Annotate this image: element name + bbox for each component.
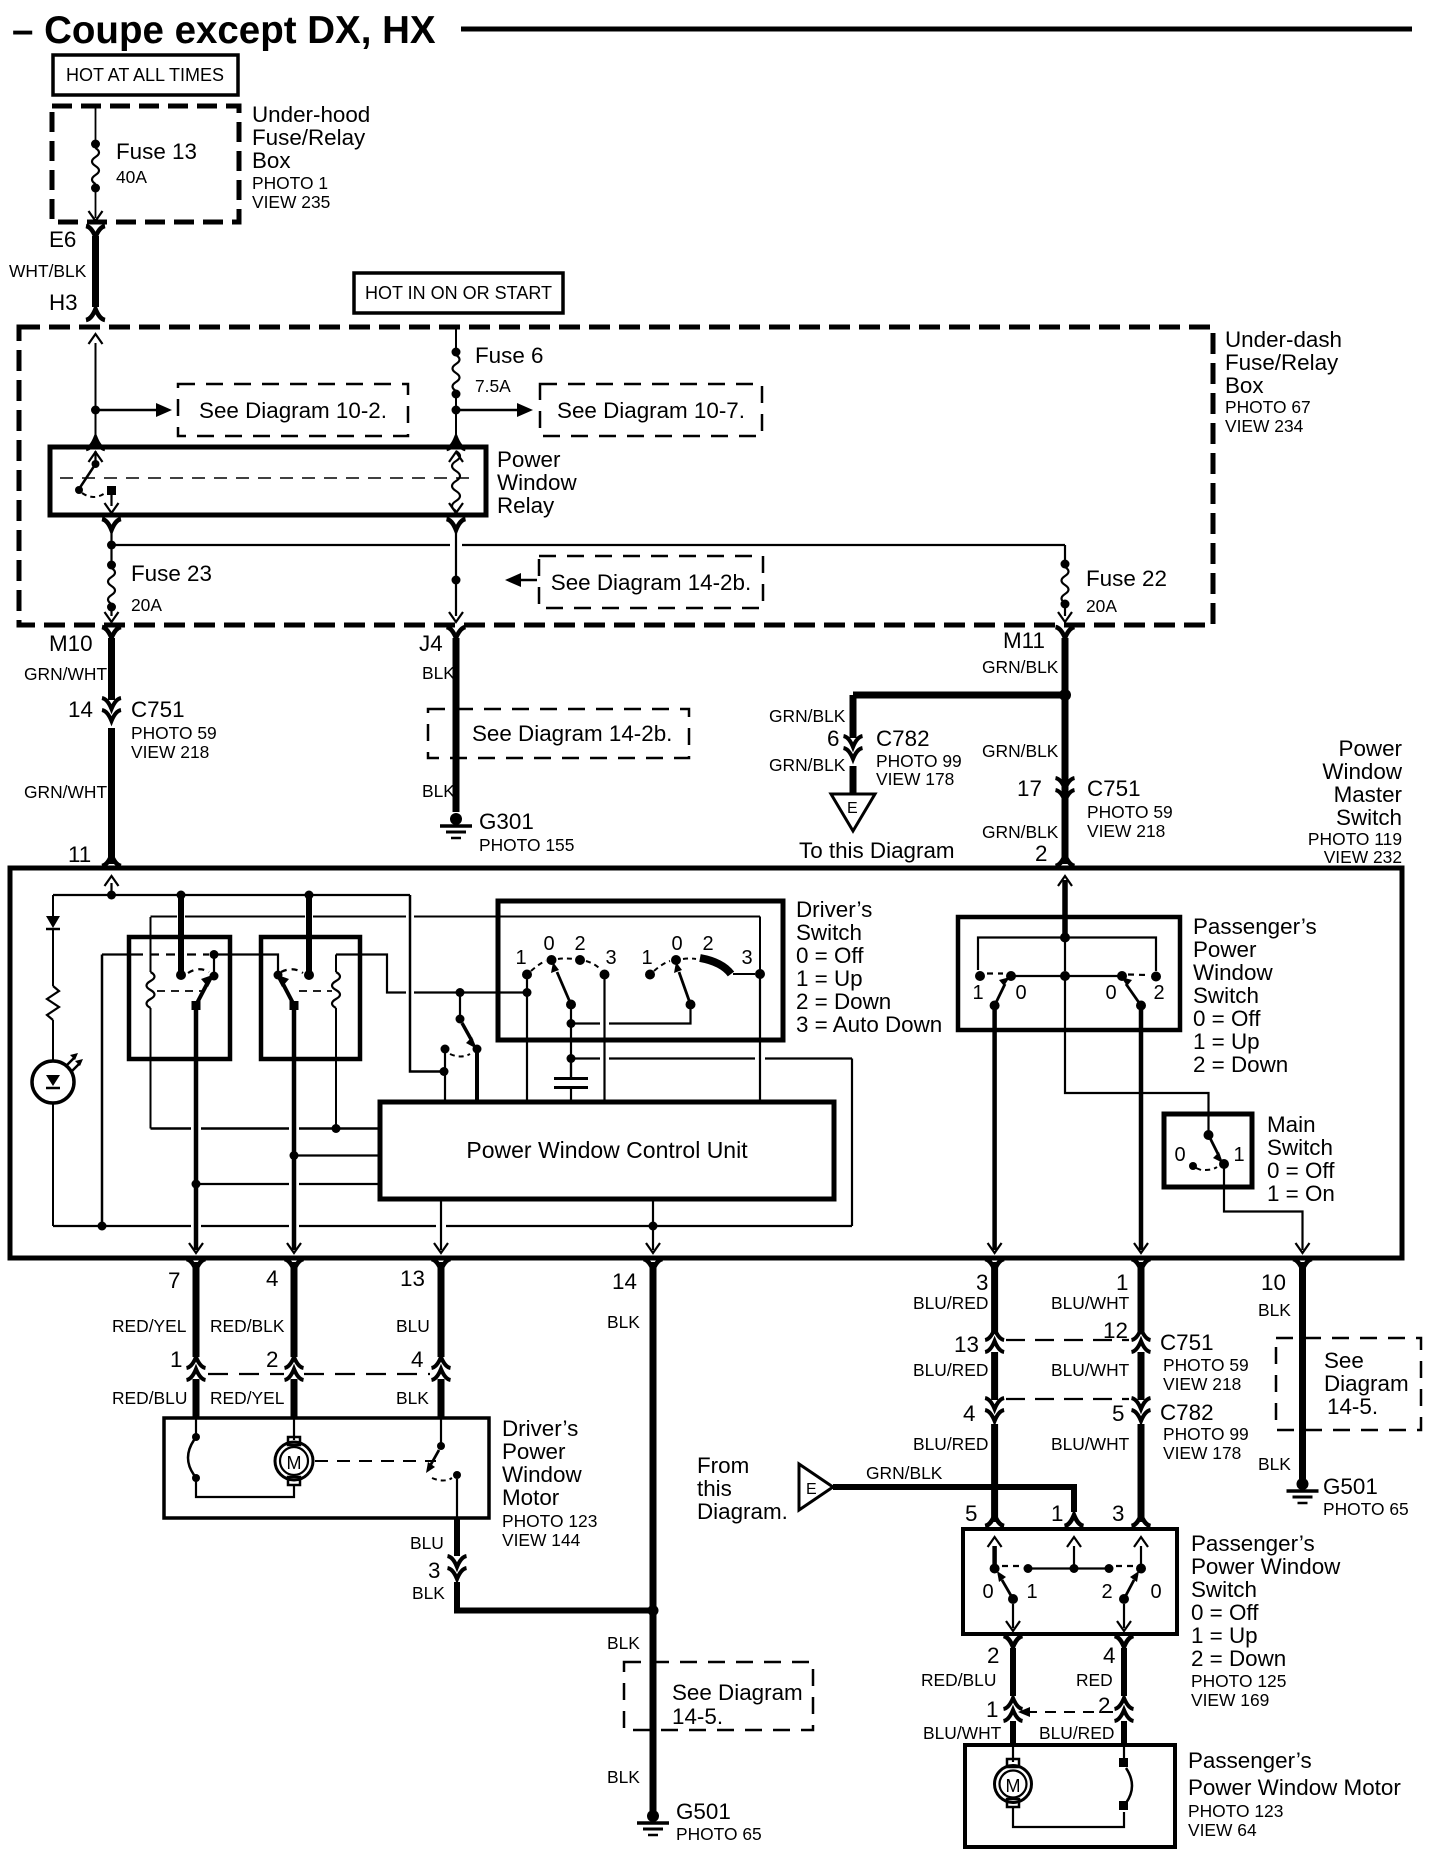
svg-text:BLU: BLU [410,1533,444,1553]
wire pin7 arrow at box edge [189,1243,203,1253]
wire BLK J4 down [453,638,460,812]
svg-text:Switch: Switch [1267,1135,1333,1160]
wire H3 into box [89,334,103,344]
svg-text:PHOTO 65: PHOTO 65 [1323,1499,1409,1519]
svg-text:Switch: Switch [796,920,862,945]
svg-text:BLU: BLU [396,1316,430,1336]
main switch box [1164,1114,1252,1187]
svg-text:1 = Up: 1 = Up [1193,1029,1260,1054]
svg-text:4: 4 [411,1347,423,1372]
wire BLU below motor [454,1518,460,1556]
svg-text:1 = Up: 1 = Up [1191,1623,1258,1648]
wire GRN/BLK to E [850,766,857,794]
ground G501 (left) [637,1810,669,1835]
relay contact [86,438,105,449]
wire pin 1 (master) [1139,1010,1144,1250]
connector 2 (rear motor) [1115,1698,1134,1721]
connector C782 pin 4 [985,1398,1004,1421]
wire rotary A pivot down [570,1009,572,1077]
svg-text:Main: Main [1267,1112,1316,1137]
svg-text:See Diagram 10-7.: See Diagram 10-7. [557,398,745,423]
svg-text:17: 17 [1017,776,1042,801]
power window control unit box [380,1102,834,1199]
wire BLK to pin14 wire [457,1582,650,1611]
svg-text:40A: 40A [116,167,147,187]
svg-text:4: 4 [1103,1643,1115,1668]
svg-text:Passenger’s: Passenger’s [1193,914,1317,939]
connector 2 below rear switch [1004,1636,1023,1647]
HOT AT ALL TIMES box [53,55,238,95]
svg-text:Motor: Motor [502,1485,560,1510]
svg-text:E: E [847,800,858,817]
See Diagram 14-2b box 2 [428,709,689,758]
svg-text:Fuse 22: Fuse 22 [1086,566,1167,591]
svg-text:3: 3 [1112,1501,1124,1526]
svg-text:Box: Box [252,148,291,173]
wire rotary B pivot link [609,1009,691,1024]
rear switch arm DOWN [1119,1594,1129,1604]
capacitor C1 [570,1062,572,1077]
connector below relay right / J4 wire [447,519,466,530]
arrow from See Diagram 14-2b [520,579,537,582]
connector 1 (driver motor) [187,1357,206,1380]
fuse 23 20A [107,561,116,570]
svg-text:VIEW 178: VIEW 178 [876,769,954,789]
svg-text:Fuse 23: Fuse 23 [131,561,212,586]
wire ground bus y1226 [53,1225,191,1227]
rear motor M [1012,1745,1014,1762]
svg-text:0: 0 [1105,982,1116,1004]
title rule [461,27,1412,32]
svg-text:See: See [1324,1348,1364,1373]
svg-text:2: 2 [1098,1693,1110,1718]
relay UP contact arc [188,969,209,973]
relay UP coil [150,917,152,972]
relay DOWN arm [282,982,294,1005]
wire bus to fuse 22 [112,544,451,546]
svg-text:RED/YEL: RED/YEL [112,1316,187,1336]
svg-text:VIEW 178: VIEW 178 [1163,1443,1241,1463]
wire RED/YEL pin7 [193,1262,200,1357]
wire GRN/BLK from E [833,1487,1074,1512]
svg-text:2 = Down: 2 = Down [1193,1052,1288,1077]
svg-text:See Diagram: See Diagram [672,1680,803,1705]
driver's power window motor box [164,1418,489,1518]
wire pin 3 (master) [992,1010,997,1250]
svg-text:1 = Up: 1 = Up [796,966,863,991]
svg-text:13: 13 [954,1332,979,1357]
under-dash fuse/relay box (dashed) [19,327,1213,625]
driver rotary B contacts [645,970,655,980]
rear switch entries [988,1537,1002,1547]
node E (to this diagram) [831,794,875,831]
svg-text:2 = Down: 2 = Down [796,989,891,1014]
svg-text:Power: Power [497,447,561,472]
svg-text:14-5.: 14-5. [672,1704,723,1729]
svg-text:7: 7 [168,1268,180,1293]
svg-text:0: 0 [1174,1144,1185,1166]
svg-text:PHOTO 123: PHOTO 123 [1188,1801,1283,1821]
connector pin 14 at master bottom [644,1259,663,1270]
dashed link C782 [1006,1398,1129,1400]
driver's switch box [498,901,783,1040]
relay UP stationary contact [210,972,219,981]
wire pin2 feed entry [1062,880,1068,934]
relay coil [447,438,466,449]
node junction M11 branch [1059,689,1071,701]
svg-text:C751: C751 [1087,776,1141,801]
wire GRN/WHT to pin 11 [108,728,115,864]
svg-text:Window: Window [497,470,577,495]
connector C751 pin 12 [1132,1329,1151,1352]
svg-text:1: 1 [1116,1270,1128,1295]
wire feed branch x410 [410,895,444,1072]
wire dashed ground link into relay UP [134,953,175,955]
svg-text:M: M [287,1453,302,1473]
svg-text:BLU/RED: BLU/RED [913,1360,988,1380]
wire BLU/WHT pin1 [1132,1259,1151,1270]
connector pin 2 into master switch [1056,855,1075,866]
svg-text:PHOTO 59: PHOTO 59 [1163,1355,1249,1375]
See Diagram 14-2b box [539,556,763,608]
auto-down relay contact [459,993,461,1016]
svg-text:1: 1 [170,1347,182,1372]
svg-text:PHOTO 155: PHOTO 155 [479,835,574,855]
svg-text:Passenger’s: Passenger’s [1188,1748,1312,1773]
connector C751 pin 17 [1056,778,1075,801]
connector pin 11 into master switch [102,855,121,866]
svg-text:PHOTO 123: PHOTO 123 [502,1511,597,1531]
relay DOWN contact arc [281,969,303,973]
See Diagram 14-5 box (right) [1276,1338,1421,1430]
svg-text:BLU/RED: BLU/RED [913,1293,988,1313]
wire rotary A contact 1 down [526,979,528,1102]
node: bus junction [107,541,116,550]
svg-text:BLK: BLK [1258,1300,1291,1320]
svg-text:Switch: Switch [1191,1577,1257,1602]
svg-text:BLK: BLK [422,781,455,801]
connector M10 [102,627,121,638]
arrow to See Diagram 10-2 [96,409,159,412]
svg-text:2: 2 [574,933,585,955]
svg-text:HOT AT ALL TIMES: HOT AT ALL TIMES [66,65,224,85]
svg-text:M11: M11 [1003,628,1045,653]
svg-text:G501: G501 [676,1799,731,1824]
svg-text:1: 1 [641,947,652,969]
svg-text:HOT IN ON OR START: HOT IN ON OR START [365,283,552,303]
svg-text:C751: C751 [1160,1330,1214,1355]
svg-text:Power Window Control Unit: Power Window Control Unit [466,1137,748,1163]
svg-text:2 = Down: 2 = Down [1191,1646,1286,1671]
svg-text:H3: H3 [49,290,78,315]
connector J4 [447,627,466,638]
passenger switch box (on master) [958,917,1180,1030]
svg-text:11: 11 [68,842,91,867]
dashed link with arrow [1026,1711,1116,1713]
rear switch arm UP [1008,1594,1018,1604]
wire branch to C782 [853,692,1065,699]
svg-text:VIEW 169: VIEW 169 [1191,1690,1269,1710]
svg-text:VIEW 218: VIEW 218 [1163,1374,1241,1394]
svg-text:To this Diagram: To this Diagram [799,838,955,863]
svg-text:PHOTO 125: PHOTO 125 [1191,1671,1286,1691]
ground G301 [440,813,472,838]
svg-text:0: 0 [982,1581,993,1603]
wire passenger center drop [1064,938,1066,972]
svg-text:0: 0 [671,933,682,955]
svg-text:3 = Auto Down: 3 = Auto Down [796,1012,942,1037]
driver motor breaker [195,1418,197,1434]
power window master switch box [10,868,1402,1258]
connector 3 into rear switch [1132,1515,1151,1526]
svg-text:PHOTO 1: PHOTO 1 [252,173,328,193]
svg-text:BLU/RED: BLU/RED [913,1434,988,1454]
main switch contact [1204,1130,1214,1140]
relay DOWN linkage [299,990,332,992]
wire BLU pin13 [438,1262,445,1357]
svg-text:BLK: BLK [396,1388,429,1408]
svg-text:Fuse 6: Fuse 6 [475,343,543,368]
svg-text:0 = Off: 0 = Off [1193,1006,1261,1031]
wire BLU/WHT [1138,1424,1145,1522]
svg-text:BLU/RED: BLU/RED [1039,1723,1114,1743]
node junction BLK [648,1605,659,1616]
wire CU pin 13 [440,1199,442,1250]
See Diagram 10-7 box [540,384,762,436]
svg-text:Window: Window [1193,960,1273,985]
svg-text:GRN/BLK: GRN/BLK [982,822,1059,842]
svg-text:See Diagram 14-2b.: See Diagram 14-2b. [551,570,751,595]
connector 3 (driver motor ground) [448,1556,467,1579]
connector H3 [86,309,105,320]
svg-text:Under-dash: Under-dash [1225,327,1342,352]
passenger sub-switch UP [975,971,985,981]
relay DOWN box (driver window) [261,937,360,1059]
svg-text:2: 2 [1153,982,1164,1004]
svg-text:PHOTO 99: PHOTO 99 [876,751,962,771]
connector 4 below rear switch [1115,1636,1134,1647]
svg-text:G301: G301 [479,809,534,834]
svg-text:WHT/BLK: WHT/BLK [9,261,87,281]
svg-text:4: 4 [266,1266,278,1291]
wire RED/BLK pin4 [291,1262,298,1357]
diode D1 [52,895,54,916]
svg-text:Under-hood: Under-hood [252,102,370,127]
svg-text:RED/YEL: RED/YEL [210,1388,285,1408]
svg-text:5: 5 [1112,1401,1124,1426]
svg-text:VIEW 218: VIEW 218 [131,742,209,762]
svg-text:BLU/WHT: BLU/WHT [923,1723,1002,1743]
relay internal dashed line [60,477,476,479]
wire CU pin4 link y1155 [294,1154,380,1156]
connector below relay left [102,519,121,530]
svg-text:BLK: BLK [422,663,455,683]
connector 1 (rear motor) [1004,1698,1023,1721]
svg-text:2: 2 [266,1347,278,1372]
svg-text:0: 0 [1150,1581,1161,1603]
wire RED/BLU to motor [193,1379,200,1418]
wire relay DOWN output (pin 4) [292,1010,297,1250]
svg-text:20A: 20A [131,595,162,615]
wire BLU/RED to rear motor [1121,1721,1127,1745]
wire WHT/BLK E6 to H3 [92,236,99,307]
svg-text:RED/BLU: RED/BLU [112,1388,187,1408]
ground G501 (right) [1287,1478,1319,1503]
wire BLU/RED [991,1424,998,1522]
svg-text:GRN/BLK: GRN/BLK [769,755,846,775]
svg-text:Switch: Switch [1193,983,1259,1008]
wire RED/YEL to motor [291,1379,298,1418]
svg-text:From: From [697,1453,749,1478]
fuse 13 40A [95,108,97,140]
driver rotary B wiper (auto-down position) [700,958,731,974]
wire pin 10 (master) [1224,1168,1303,1250]
svg-text:BLK: BLK [607,1312,640,1332]
under-hood fuse/relay box (dashed) [52,106,239,222]
connector 2 (driver motor) [285,1357,304,1380]
relay UP arm [196,982,208,1005]
wire ground bus x102 [101,955,104,1227]
svg-text:E6: E6 [49,227,76,252]
connector pin 4 at master bottom [285,1259,304,1270]
svg-text:Driver’s: Driver’s [502,1416,578,1441]
svg-text:C782: C782 [876,726,930,751]
svg-text:0 = Off: 0 = Off [1191,1600,1259,1625]
wire passenger contact bus [1011,975,1122,977]
svg-text:Fuse 13: Fuse 13 [116,139,197,164]
svg-text:GRN/BLK: GRN/BLK [982,741,1059,761]
svg-text:1: 1 [1026,1581,1037,1603]
wire to main switch [1065,980,1209,1132]
svg-text:PHOTO 59: PHOTO 59 [131,723,217,743]
connector C782 pin 6 [844,736,863,759]
fuse 22 20A [1061,560,1070,569]
rear switch contact bus [990,1564,1000,1574]
svg-text:BLK: BLK [607,1633,640,1653]
connector M11 [1056,627,1075,638]
svg-text:Power: Power [1339,736,1403,761]
svg-text:14: 14 [68,697,93,722]
svg-text:7.5A: 7.5A [475,376,511,396]
svg-text:4: 4 [963,1401,975,1426]
svg-text:RED/BLU: RED/BLU [921,1670,996,1690]
svg-text:Power: Power [502,1439,566,1464]
relay UP box (driver window) [129,937,230,1059]
wire pivot ground bus y1058 [571,1057,600,1059]
svg-text:3: 3 [976,1270,988,1295]
svg-text:Window: Window [502,1462,582,1487]
svg-text:13: 13 [400,1266,425,1291]
wire coil DOWN top link [336,955,406,993]
svg-text:Diagram.: Diagram. [697,1499,788,1524]
svg-text:Power: Power [1193,937,1257,962]
svg-text:2: 2 [1035,841,1047,866]
svg-text:BLK: BLK [1258,1454,1291,1474]
svg-text:6: 6 [827,726,839,751]
svg-text:RED: RED [1076,1670,1113,1690]
relay UP linkage [157,990,203,992]
passenger sub-switch DOWN [1151,972,1161,982]
connector E6 [86,226,105,237]
wire GRN/WHT M10 down [108,638,115,700]
svg-text:C782: C782 [1160,1400,1214,1425]
svg-text:M: M [1006,1776,1021,1796]
rear motor breaker [1123,1745,1125,1760]
wire CU pin 14 [652,1199,654,1250]
svg-text:Fuse/Relay: Fuse/Relay [252,125,366,150]
svg-text:J4: J4 [419,631,443,656]
svg-text:VIEW 64: VIEW 64 [1188,1820,1257,1840]
svg-text:VIEW 218: VIEW 218 [1087,821,1165,841]
connector 5 into rear switch [985,1515,1004,1526]
connector C751 pin 13 [985,1329,1004,1352]
svg-text:BLU/WHT: BLU/WHT [1051,1360,1130,1380]
svg-text:this: this [697,1476,732,1501]
wire passenger top bus [978,938,1156,972]
wire GRN/BLK M11 down [1062,638,1069,864]
connector pin 13 at master bottom [432,1259,451,1270]
HOT IN ON OR START box [354,273,563,313]
svg-text:0 = Off: 0 = Off [1267,1158,1335,1183]
svg-text:Driver’s: Driver’s [796,897,872,922]
wire stationary link to relay DOWN [214,955,278,972]
wire rotary A contact 3 down [603,979,605,1102]
svg-text:Relay: Relay [497,493,555,518]
svg-text:2: 2 [987,1643,999,1668]
arrow to See Diagram 10-7 [456,409,519,412]
wire pin 11 entry [105,876,119,886]
power window relay box [50,447,486,515]
svg-text:Power Window Motor: Power Window Motor [1188,1775,1401,1800]
relay DOWN coil [335,955,337,973]
svg-text:14: 14 [612,1269,637,1294]
svg-text:See Diagram 14-2b.: See Diagram 14-2b. [472,721,672,746]
svg-text:10: 10 [1261,1270,1286,1295]
svg-text:E: E [806,1481,817,1498]
svg-text:Master: Master [1334,782,1403,807]
svg-text:VIEW 235: VIEW 235 [252,192,330,212]
svg-text:Fuse/Relay: Fuse/Relay [1225,350,1339,375]
svg-text:VIEW 232: VIEW 232 [1324,847,1402,867]
svg-text:3: 3 [428,1558,440,1583]
svg-text:GRN/WHT: GRN/WHT [24,664,107,684]
connector C782 pin 5 [1132,1398,1151,1421]
See Diagram 14-5 box (left) [624,1662,813,1730]
wire feed to relay DOWN contact [306,895,312,973]
wire BLU/RED [991,1352,998,1400]
wire CU coil return y1128 [151,1127,192,1130]
connector C751 pin 14 [102,698,121,721]
svg-text:VIEW 144: VIEW 144 [502,1530,581,1550]
svg-text:Passenger’s: Passenger’s [1191,1531,1315,1556]
driver motor linkage dashed [315,1460,436,1462]
wire RED/BLU [1010,1648,1016,1696]
svg-text:0: 0 [543,933,554,955]
svg-text:PHOTO 65: PHOTO 65 [676,1824,762,1844]
svg-text:C751: C751 [131,697,185,722]
svg-text:M10: M10 [49,631,93,656]
svg-text:GRN/BLK: GRN/BLK [982,657,1059,677]
svg-text:5: 5 [965,1501,977,1526]
svg-text:1 = On: 1 = On [1267,1181,1335,1206]
svg-text:Window: Window [1322,759,1402,784]
wire BLU/WHT to rear motor [1010,1721,1016,1745]
svg-text:1: 1 [1051,1501,1063,1526]
wire relay UP output (pin 7) [194,1010,199,1250]
rear switch outputs [1012,1604,1014,1628]
wire feed bus y895 [53,894,410,896]
svg-text:RED/BLK: RED/BLK [210,1316,285,1336]
